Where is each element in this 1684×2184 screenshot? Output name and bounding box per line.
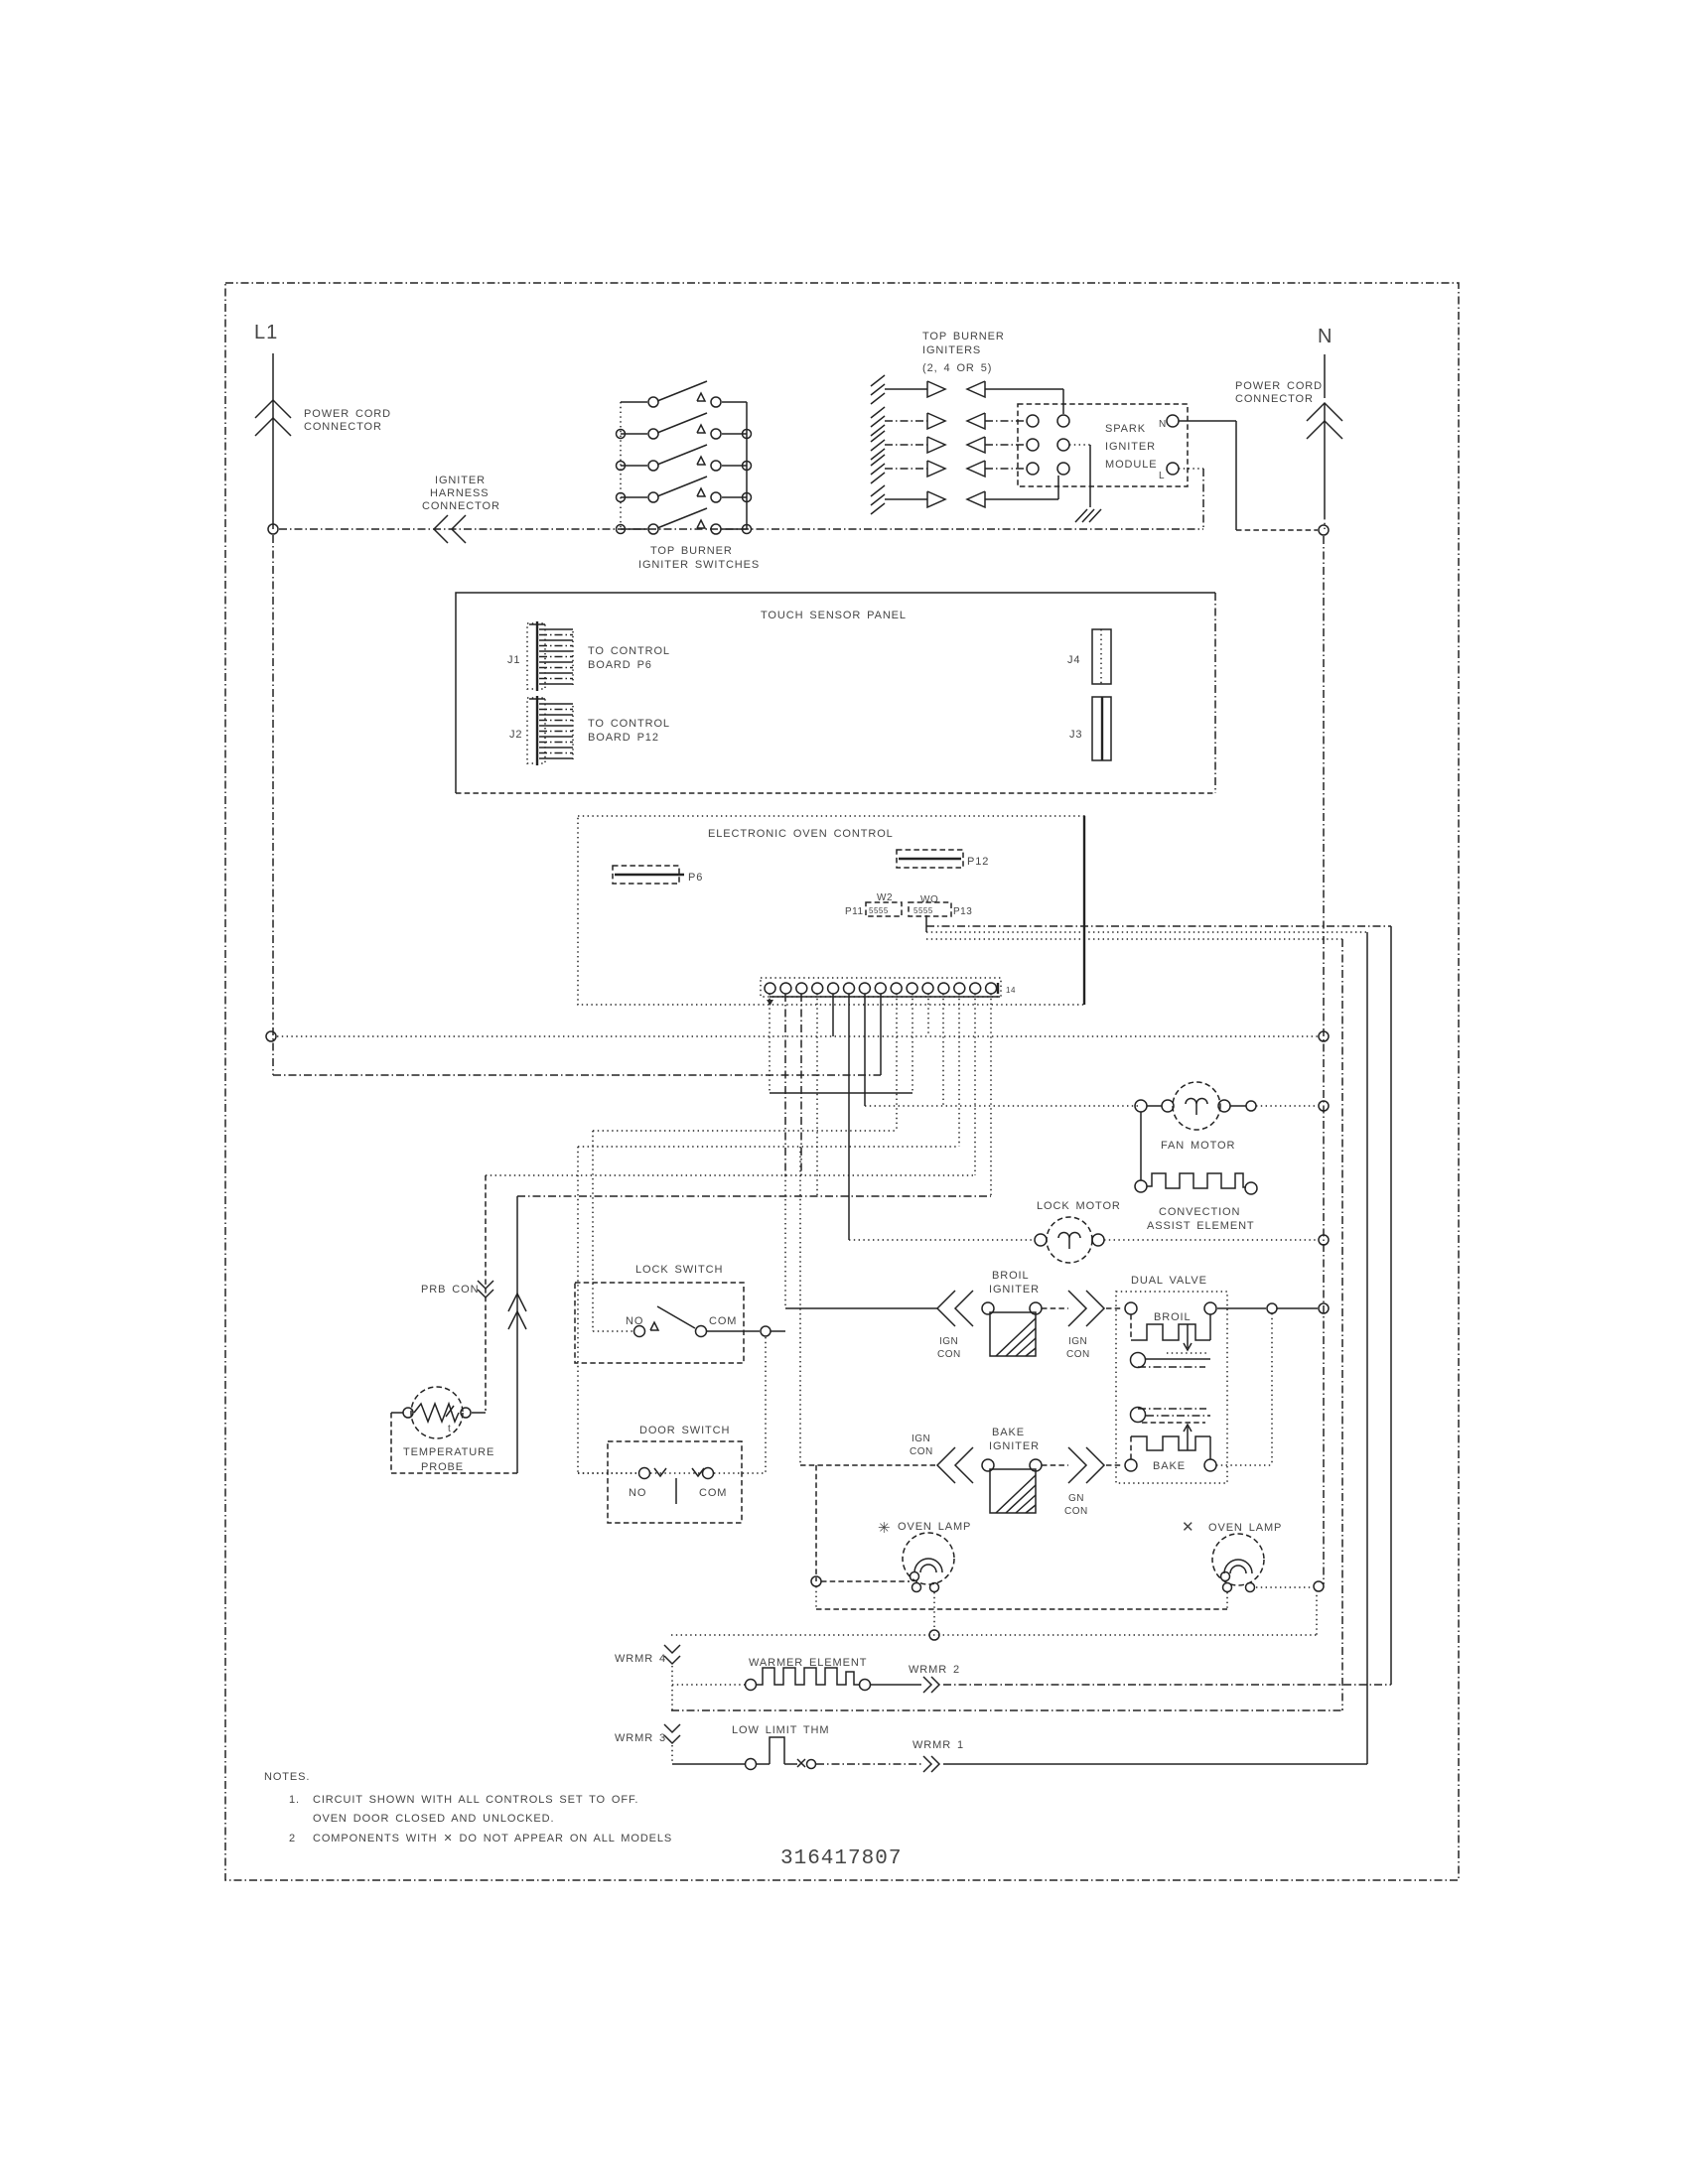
svg-text:OVEN DOOR CLOSED AND UNLOCKED.: OVEN DOOR CLOSED AND UNLOCKED. <box>313 1813 554 1825</box>
svg-text:L1: L1 <box>254 322 278 343</box>
svg-text:L: L <box>1159 471 1165 481</box>
svg-text:POWER CORD: POWER CORD <box>1235 380 1323 392</box>
svg-text:PRB CON: PRB CON <box>421 1284 479 1296</box>
svg-text:IGNITERS: IGNITERS <box>922 344 981 356</box>
svg-text:MODULE: MODULE <box>1105 459 1157 471</box>
svg-text:COMPONENTS WITH ✕ DO NOT APP: COMPONENTS WITH ✕ DO NOT APPEAR ON ALL M… <box>313 1833 672 1844</box>
svg-text:ELECTRONIC OVEN CONTROL: ELECTRONIC OVEN CONTROL <box>708 828 894 840</box>
svg-text:ASSIST ELEMENT: ASSIST ELEMENT <box>1147 1220 1255 1232</box>
svg-text:BOARD P12: BOARD P12 <box>588 732 659 744</box>
svg-text:NOTES.: NOTES. <box>264 1771 310 1783</box>
svg-text:COM: COM <box>709 1315 737 1327</box>
svg-text:P6: P6 <box>688 872 703 884</box>
svg-text:IGN: IGN <box>1068 1336 1087 1347</box>
svg-text:COM: COM <box>699 1487 727 1499</box>
svg-text:P12: P12 <box>967 856 989 868</box>
svg-text:CONNECTOR: CONNECTOR <box>304 421 382 433</box>
svg-text:(2, 4 OR 5): (2, 4 OR 5) <box>922 362 992 374</box>
svg-text:WRMR 2: WRMR 2 <box>909 1664 960 1676</box>
svg-text:2: 2 <box>289 1833 296 1844</box>
svg-text:BROIL: BROIL <box>1154 1311 1192 1323</box>
svg-text:WRMR 4: WRMR 4 <box>615 1653 666 1665</box>
svg-text:IGN: IGN <box>912 1433 930 1444</box>
svg-text:BAKE: BAKE <box>1153 1460 1186 1472</box>
svg-text:WRMR 3: WRMR 3 <box>615 1732 666 1744</box>
svg-text:TOUCH SENSOR PANEL: TOUCH SENSOR PANEL <box>761 610 907 621</box>
svg-text:CON: CON <box>1064 1506 1088 1517</box>
svg-text:5555: 5555 <box>913 906 933 915</box>
svg-text:CON: CON <box>937 1349 961 1360</box>
svg-text:TO CONTROL: TO CONTROL <box>588 645 670 657</box>
svg-text:316417807: 316417807 <box>780 1847 902 1870</box>
svg-text:N: N <box>1318 326 1333 347</box>
svg-text:P13: P13 <box>953 906 972 917</box>
svg-text:IGNITER: IGNITER <box>435 475 486 486</box>
svg-text:TO CONTROL: TO CONTROL <box>588 718 670 730</box>
svg-text:P11: P11 <box>845 906 864 917</box>
svg-text:IGNITER: IGNITER <box>989 1284 1040 1296</box>
svg-text:OVEN LAMP: OVEN LAMP <box>898 1521 971 1533</box>
svg-text:GN: GN <box>1068 1493 1084 1504</box>
svg-text:J3: J3 <box>1069 729 1082 741</box>
svg-text:✕: ✕ <box>1182 1519 1194 1536</box>
svg-text:LOW LIMIT THM: LOW LIMIT THM <box>732 1724 829 1736</box>
svg-text:5555: 5555 <box>869 906 889 915</box>
svg-text:DUAL VALVE: DUAL VALVE <box>1131 1275 1207 1287</box>
svg-text:CON: CON <box>1066 1349 1090 1360</box>
svg-text:CONNECTOR: CONNECTOR <box>1235 393 1314 405</box>
svg-text:FAN MOTOR: FAN MOTOR <box>1161 1140 1235 1152</box>
svg-text:HARNESS: HARNESS <box>430 487 489 499</box>
svg-text:IGNITER: IGNITER <box>1105 441 1156 453</box>
svg-text:DOOR SWITCH: DOOR SWITCH <box>639 1425 730 1436</box>
svg-text:WRMR 1: WRMR 1 <box>912 1739 964 1751</box>
svg-text:OVEN LAMP: OVEN LAMP <box>1208 1522 1282 1534</box>
svg-text:IGNITER: IGNITER <box>989 1440 1040 1452</box>
svg-text:LOCK MOTOR: LOCK MOTOR <box>1037 1200 1121 1212</box>
svg-text:J4: J4 <box>1067 654 1080 666</box>
svg-text:CONNECTOR: CONNECTOR <box>422 500 500 512</box>
svg-text:BAKE: BAKE <box>992 1427 1025 1438</box>
svg-text:POWER CORD: POWER CORD <box>304 408 391 420</box>
svg-text:NO: NO <box>629 1487 646 1499</box>
svg-text:WARMER ELEMENT: WARMER ELEMENT <box>749 1657 867 1669</box>
svg-text:CONVECTION: CONVECTION <box>1159 1206 1240 1218</box>
svg-text:TOP BURNER: TOP BURNER <box>922 331 1005 342</box>
svg-text:BROIL: BROIL <box>992 1270 1030 1282</box>
svg-text:BOARD P6: BOARD P6 <box>588 659 652 671</box>
svg-text:1.: 1. <box>289 1794 300 1806</box>
svg-text:J2: J2 <box>509 729 522 741</box>
svg-text:t: t <box>448 1424 451 1434</box>
svg-text:NO: NO <box>626 1315 643 1327</box>
svg-text:N: N <box>1159 419 1167 430</box>
svg-text:CIRCUIT SHOWN WITH ALL CONTROL: CIRCUIT SHOWN WITH ALL CONTROLS SET TO O… <box>313 1794 638 1806</box>
svg-text:LOCK SWITCH: LOCK SWITCH <box>635 1264 723 1276</box>
svg-text:PROBE: PROBE <box>421 1461 464 1473</box>
svg-text:WO: WO <box>920 894 938 905</box>
svg-text:TEMPERATURE: TEMPERATURE <box>403 1446 494 1458</box>
svg-text:TOP BURNER: TOP BURNER <box>650 545 733 557</box>
svg-text:IGNITER SWITCHES: IGNITER SWITCHES <box>638 559 760 571</box>
svg-text:✳: ✳ <box>878 1520 891 1537</box>
svg-text:14: 14 <box>1006 986 1016 995</box>
svg-text:IGN: IGN <box>939 1336 958 1347</box>
svg-text:J1: J1 <box>507 654 520 666</box>
svg-text:CON: CON <box>910 1446 933 1457</box>
svg-text:SPARK: SPARK <box>1105 423 1146 435</box>
